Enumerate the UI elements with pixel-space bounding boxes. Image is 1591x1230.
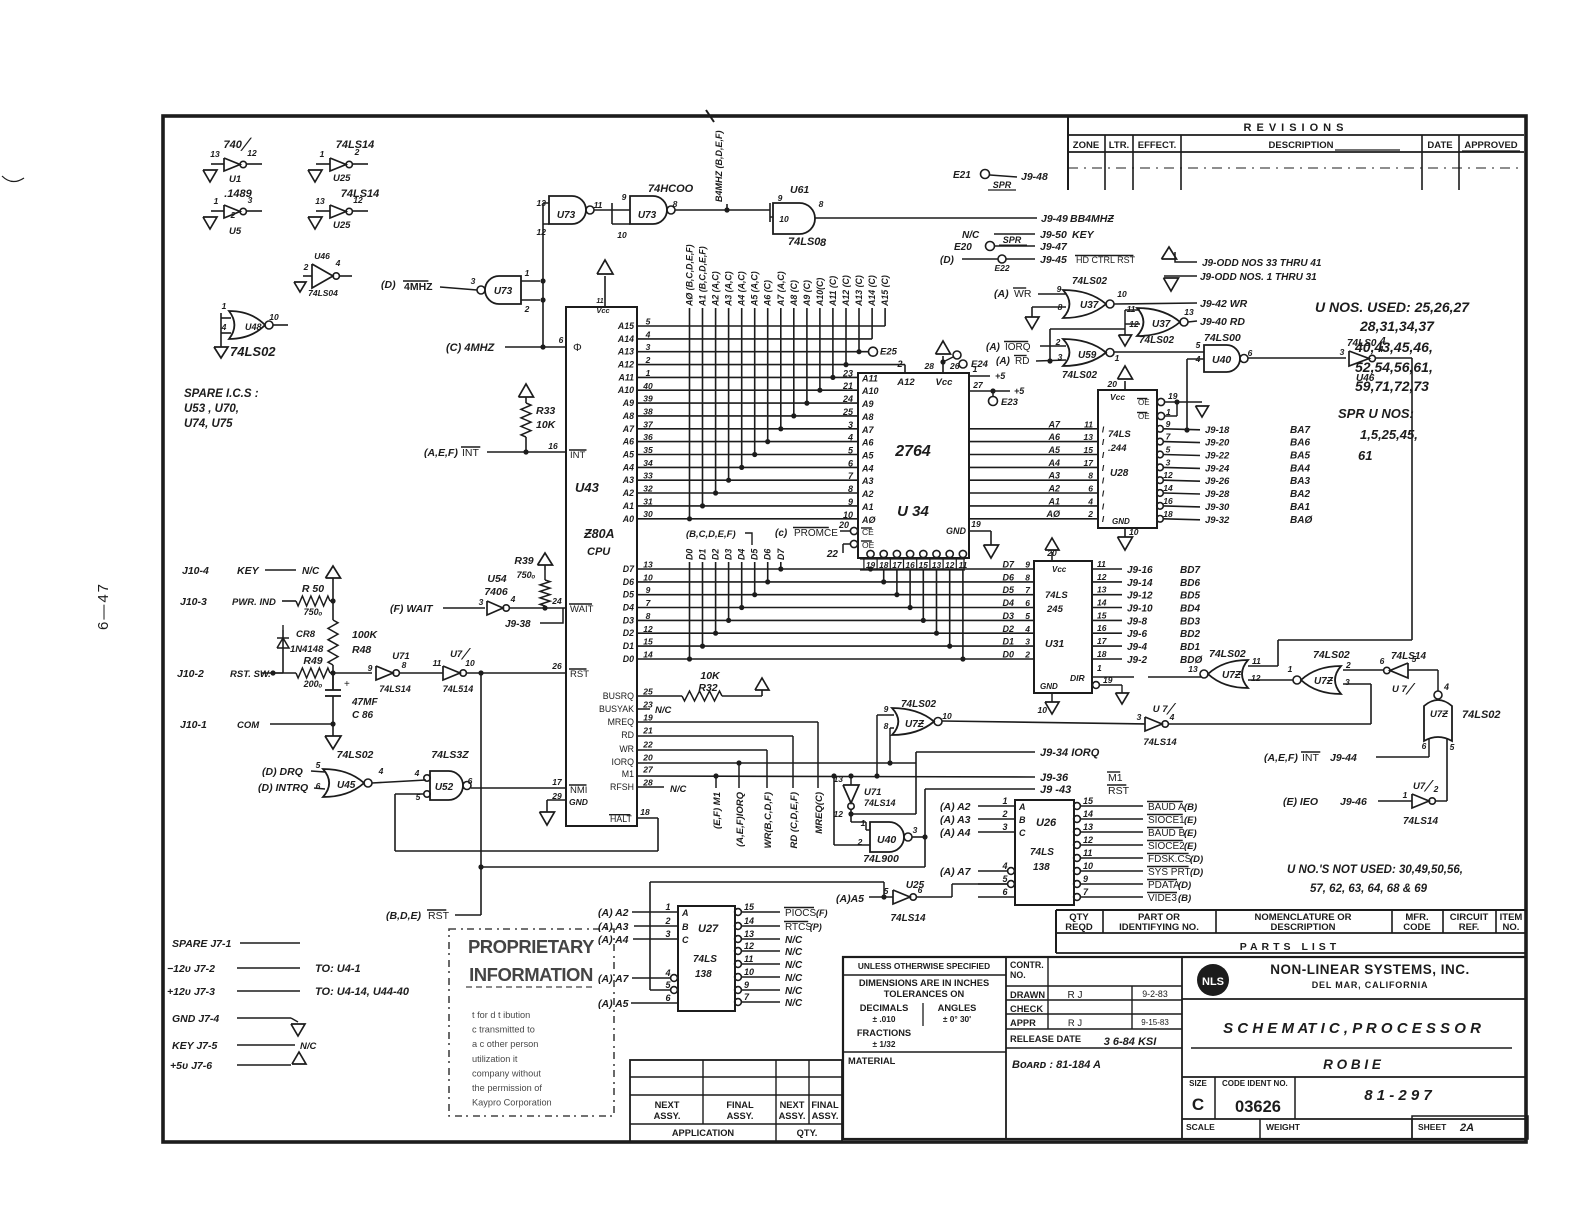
svg-text:SPR U NOS:: SPR U NOS: [1338,406,1414,421]
svg-text:GND J7-4: GND J7-4 [172,1013,219,1025]
svg-text:J9-48: J9-48 [1021,171,1048,183]
svg-text:WAIT: WAIT [570,604,594,615]
svg-text:3: 3 [646,342,651,352]
svg-text:D2: D2 [623,628,634,638]
svg-text:9: 9 [1166,419,1171,429]
svg-text:12: 12 [537,227,547,237]
resistor R50 750 [296,596,330,606]
U28 OE wiring [1165,401,1202,403]
ground U25b [308,217,322,229]
svg-text:NON-LINEAR SYSTEMS, INC.: NON-LINEAR SYSTEMS, INC. [1270,962,1470,977]
svg-text:A15 (C): A15 (C) [880,275,890,307]
svg-text:9: 9 [646,585,651,595]
svg-text:N/C: N/C [785,973,803,984]
svg-text:TO: U4-1: TO: U4-1 [315,963,361,975]
svg-text:12: 12 [643,624,653,634]
svg-text:U61: U61 [790,184,809,196]
wire U40b input 2 from M1 [834,844,870,846]
svg-text:(A,E,F): (A,E,F) [424,447,458,459]
svg-text:3: 3 [665,929,670,939]
svg-text:± 0° 30': ± 0° 30' [943,1014,971,1024]
title block [843,957,1526,1139]
svg-text:74LS: 74LS [1045,590,1068,601]
svg-text:4: 4 [1024,624,1030,634]
svg-text:NLS: NLS [1202,976,1224,988]
svg-text:A11: A11 [861,373,878,383]
svg-text:4: 4 [664,968,670,978]
svg-text:A7: A7 [622,424,635,434]
svg-text:WR: WR [1014,288,1032,300]
svg-text:74L900: 74L900 [863,853,899,865]
decoder U27 74LS138 [678,906,735,1011]
net label IORQ vertical [738,763,740,788]
svg-text:J9-40 RD: J9-40 RD [1200,316,1245,328]
svg-text:(E): (E) [1184,828,1197,839]
svg-text:APPR: APPR [1010,1018,1036,1028]
svg-text:J9-38: J9-38 [505,619,531,630]
svg-text:ZONE: ZONE [1073,140,1099,151]
svg-text:BAUD A: BAUD A [1148,802,1185,813]
svg-text:12: 12 [1097,572,1107,582]
svg-text:138: 138 [695,969,712,980]
svg-text:SYS PRT: SYS PRT [1148,867,1191,878]
bus line A3 [728,308,730,480]
buffer U28 74LS244 [1098,390,1157,528]
AND gate U61 (74LS08) [773,203,815,234]
svg-text:U45: U45 [337,780,356,791]
svg-text:9-15-83: 9-15-83 [1141,1018,1169,1027]
svg-text:2: 2 [896,359,902,369]
bus line A10(C) [819,308,821,390]
svg-text:25: 25 [642,687,653,697]
svg-text:U37: U37 [1152,319,1171,330]
svg-text:9: 9 [744,980,749,990]
svg-text:J9-22: J9-22 [1205,451,1230,462]
svg-text:A5: A5 [1047,445,1060,455]
U28 output BA2 [1157,490,1164,497]
svg-text:18: 18 [1163,509,1173,519]
svg-text:1: 1 [1115,353,1120,363]
svg-text:U59: U59 [1078,350,1097,361]
net label M1 vertical [715,776,717,788]
svg-text:10: 10 [1117,289,1127,299]
wire U72d out to U71c [942,721,1145,724]
node B4MHZ [724,207,729,212]
svg-text:4: 4 [414,768,420,778]
svg-text:13: 13 [1188,664,1198,674]
wire U72a input 11 from clock [1248,665,1278,667]
svg-text:A5: A5 [861,451,874,461]
svg-text:GND: GND [1040,682,1058,691]
svg-text:BB4MHƵ: BB4MHƵ [1070,213,1114,225]
svg-text:+5ᴜ J7-6: +5ᴜ J7-6 [170,1060,212,1072]
U34 output pin numbers [860,558,965,560]
svg-text:± .010: ± .010 [872,1014,895,1024]
svg-text:A3: A3 [861,476,874,486]
svg-text:(D) INTRQ: (D) INTRQ [258,782,308,794]
svg-text:A5 (A,C): A5 (A,C) [750,271,760,307]
ground CPU pin 29 [547,799,566,801]
svg-text:U25: U25 [333,220,351,231]
svg-text:U74, U75: U74, U75 [184,418,233,430]
svg-text:37: 37 [643,419,654,429]
svg-text:+: + [344,679,350,690]
svg-text:(C) 4MHZ: (C) 4MHZ [446,342,496,354]
svg-text:U7Ƶ: U7Ƶ [1314,676,1334,687]
svg-text:1: 1 [320,149,325,159]
U27 output RTCS pin 14 [735,923,742,930]
svg-text:10: 10 [643,572,653,582]
svg-text:47MF: 47MF [351,697,378,708]
svg-text:ASSY.: ASSY. [779,1111,806,1121]
svg-text:DATE: DATE [1427,140,1452,151]
U27 output N/C pin 11 [735,961,742,968]
wire A13 row [637,351,868,353]
U34 output bubbles [867,550,874,557]
svg-text:10: 10 [1083,861,1093,871]
svg-text:CODE IDENT NO.: CODE IDENT NO. [1222,1079,1288,1088]
svg-text:the permission of: the permission of [472,1083,542,1093]
svg-text:3: 3 [1058,352,1063,362]
svg-text:DEL MAR, CALIFORNIA: DEL MAR, CALIFORNIA [1312,980,1429,990]
svg-text:74LS02: 74LS02 [1139,335,1174,346]
svg-text:19: 19 [643,713,653,723]
svg-text:FRACTIONS: FRACTIONS [857,1028,911,1038]
wire M1 row [637,776,1035,777]
wire A1 row [637,505,858,507]
wire U27 pin 5 from A5 net [649,882,651,990]
svg-text:SPR: SPR [993,180,1012,190]
svg-text:10K: 10K [700,670,721,682]
svg-text:17: 17 [552,777,563,787]
svg-text:(A)A5: (A)A5 [836,893,864,905]
svg-text:74LS02: 74LS02 [1209,648,1246,660]
svg-text:D1: D1 [1002,637,1014,647]
svg-text:9: 9 [884,704,889,714]
U28 output BA1 [1157,503,1164,510]
svg-text:4: 4 [847,433,853,443]
U26 input pin 5 [1008,881,1015,888]
svg-text:1: 1 [525,268,530,278]
svg-text:36: 36 [643,432,653,442]
svg-text:2: 2 [354,147,360,157]
svg-text:N/C: N/C [785,960,803,971]
svg-text:10: 10 [843,510,853,520]
svg-text:J9-26: J9-26 [1205,476,1230,487]
svg-text:A9: A9 [622,398,634,408]
wire A14 row [637,338,872,340]
svg-text:A11 (C): A11 (C) [828,276,838,307]
svg-text:38: 38 [643,406,653,416]
svg-text:A9: A9 [861,399,874,409]
wire U45 to U52 [372,780,426,783]
svg-text:VIDE3: VIDE3 [1148,893,1177,904]
svg-text:10K: 10K [536,419,557,431]
wire U72c input 5 from U71f [1446,738,1448,801]
wire RD row [637,735,793,737]
U34 output wires to data bus [870,569,872,570]
svg-text:D4: D4 [1002,598,1014,608]
svg-text:4: 4 [1001,861,1007,871]
svg-text:4: 4 [1169,712,1175,722]
wire A7 row [637,428,858,430]
svg-text:1,5,25,45,: 1,5,25,45, [1360,427,1418,442]
svg-text:2764: 2764 [894,443,931,460]
svg-text:PWR. IND: PWR. IND [232,597,276,608]
svg-text:A: A [1018,802,1026,812]
svg-text:M1: M1 [1108,772,1123,784]
svg-text:A7: A7 [1047,419,1060,429]
svg-text:A7 (A,C): A7 (A,C) [776,271,786,307]
svg-text:D7: D7 [776,548,786,560]
svg-text:U73: U73 [494,286,513,297]
svg-text:A8 (C): A8 (C) [789,280,799,307]
wire A15 row [637,325,885,327]
svg-text:8: 8 [1088,471,1093,481]
svg-text:(B): (B) [1178,893,1191,904]
U31 output BD2 [1092,632,1122,634]
svg-text:NEXT: NEXT [780,1100,805,1110]
svg-text:AØ: AØ [861,515,876,525]
svg-text:12: 12 [247,148,257,158]
wire U40b output [912,836,925,838]
svg-text:E21: E21 [953,170,971,181]
svg-text:13: 13 [834,774,844,784]
svg-text:A6: A6 [861,438,874,448]
svg-text:2: 2 [664,916,670,926]
svg-text:CR8: CR8 [296,629,316,640]
svg-text:(E) IEO: (E) IEO [1283,796,1318,808]
svg-text:9: 9 [622,192,627,202]
svg-text:R48: R48 [352,644,371,656]
svg-text:40: 40 [642,381,653,391]
svg-text:D5: D5 [750,549,760,560]
wire U72b input 2 from U71e [1343,669,1383,671]
svg-text:FDSK.CS: FDSK.CS [1148,854,1192,865]
U26 output FDSK.CS [1074,855,1081,862]
svg-text:11: 11 [1252,656,1261,666]
svg-text:5: 5 [646,317,651,327]
svg-text:A12: A12 [896,377,915,388]
svg-text:15: 15 [744,902,755,912]
svg-text:J9-6: J9-6 [1127,629,1147,640]
svg-text:E22: E22 [994,263,1009,273]
svg-text:74LS00: 74LS00 [1204,332,1241,344]
svg-text:23: 23 [842,368,853,378]
svg-text:J10-2: J10-2 [177,668,204,680]
svg-text:J9-46: J9-46 [1340,796,1367,808]
svg-text:A1: A1 [622,501,634,511]
svg-text:31: 31 [643,496,653,506]
svg-text:A9 (C): A9 (C) [802,280,812,307]
wire A12 into 2764 [904,365,906,373]
bus line A9 [806,308,808,403]
U34 pin 1 Vpp +5 [969,375,990,377]
svg-text:12: 12 [353,195,363,205]
wire A4 row [637,466,858,468]
net label RD vertical [792,736,794,788]
wire U72d input 9 to M1 row [877,714,894,716]
svg-text:200ₒ: 200ₒ [303,679,323,689]
svg-text:17: 17 [1097,636,1108,646]
svg-text:N/C: N/C [785,986,803,997]
svg-text:74L514: 74L514 [443,684,474,694]
svg-text:N/C: N/C [785,998,803,1009]
svg-text:D1: D1 [698,549,708,560]
svg-text:A10(C): A10(C) [815,278,825,307]
wire U72a input 12 from U72b [1248,679,1293,681]
svg-text:R J: R J [1068,1018,1083,1029]
svg-text:SCALE: SCALE [1186,1122,1215,1132]
U27 output N/C pin 10 [735,974,742,981]
U26 output SYS PRT [1074,868,1081,875]
svg-text:D6: D6 [763,549,773,560]
svg-text:8: 8 [820,237,827,249]
svg-text:A10: A10 [617,385,634,395]
svg-text:a c other person: a c other person [472,1039,538,1049]
svg-text:U1: U1 [229,174,241,185]
svg-text:BA6: BA6 [1290,438,1310,449]
svg-text:t for d t ibution: t for d t ibution [472,1010,530,1020]
svg-text:APPROVED: APPROVED [1464,140,1517,151]
svg-text:J9-44: J9-44 [1330,752,1357,764]
svg-text:1: 1 [1097,663,1102,673]
svg-text:NEXT: NEXT [655,1100,680,1110]
svg-text:13: 13 [643,560,653,570]
svg-text:18: 18 [1097,649,1107,659]
svg-text:A1: A1 [1047,496,1060,506]
svg-text:DIMENSIONS ARE IN INCHES: DIMENSIONS ARE IN INCHES [859,978,989,988]
svg-text:1: 1 [222,301,227,311]
svg-text:N/C: N/C [962,230,980,241]
svg-text:SPR: SPR [1003,235,1022,245]
svg-text:26: 26 [949,361,960,371]
svg-text:+5: +5 [1014,386,1025,396]
U28 output BA4 [1157,464,1164,471]
svg-text:13: 13 [315,196,325,206]
svg-text:74LS02: 74LS02 [1062,370,1097,381]
svg-text:11: 11 [596,298,603,305]
svg-text:J10-3: J10-3 [180,596,207,608]
svg-text:15: 15 [1097,610,1107,620]
wire WR row [637,749,767,751]
svg-text:MREQ(C): MREQ(C) [814,792,825,834]
ground U1 [203,170,217,182]
svg-text:19: 19 [1103,675,1113,685]
wire U72d input 8 to IORQ row [890,727,894,729]
svg-text:U73: U73 [638,210,657,221]
svg-text:SHEET: SHEET [1418,1122,1447,1132]
svg-text:D1: D1 [623,641,634,651]
svg-text:3: 3 [1345,677,1350,687]
ground U48 [220,339,222,347]
svg-text:S C H E M AT I C , P R O C E: S C H E M AT I C , P R O C E S S O R [1223,1020,1481,1037]
svg-text:D3: D3 [623,615,634,625]
vcc J9-ODD NOS 33-41 [1162,247,1177,259]
svg-text:6: 6 [468,776,473,786]
svg-text:750ₒ: 750ₒ [517,570,536,580]
U28 output BA3 [1157,477,1164,484]
wire U37a to J9-42 WR [1114,303,1197,304]
svg-text:9: 9 [368,663,373,673]
wire U71c to U72b input 3 [1168,723,1371,725]
wire INT J9-44 to U72c [1428,738,1430,757]
NOR U37b 74LS02 [1137,308,1180,336]
svg-text:J9-45: J9-45 [1040,254,1067,266]
svg-text:A10: A10 [861,386,879,396]
svg-text:J9-50: J9-50 [1040,229,1067,241]
wire IORQ row [637,762,916,764]
svg-text:74LS14: 74LS14 [1403,816,1438,827]
decoder U26 74LS138 [1015,800,1074,905]
svg-text:± 1/32: ± 1/32 [872,1039,895,1049]
svg-text:J9-32: J9-32 [1205,515,1230,526]
svg-text:11: 11 [433,658,442,668]
svg-text:21: 21 [842,381,853,391]
svg-text:8: 8 [402,660,407,670]
svg-text:(D): (D) [1190,854,1203,865]
svg-text:A5: A5 [622,450,634,460]
wire A12 row [637,364,905,366]
svg-text:5: 5 [316,760,321,770]
NOR U72c 74LS02 (vertical) [1434,691,1442,699]
svg-text:(D): (D) [1190,867,1203,878]
svg-text:A4: A4 [622,462,634,472]
U31 output BDØ [1092,658,1122,660]
svg-text:N/C: N/C [655,705,672,716]
ground C86 [332,724,334,736]
svg-text:(c): (c) [775,528,788,539]
svg-text:BD3: BD3 [1180,616,1200,627]
svg-text:(D): (D) [1178,880,1191,891]
svg-text:A3 (A,C): A3 (A,C) [724,271,734,307]
bus line A13 [858,308,860,352]
svg-text:24: 24 [842,394,853,404]
svg-text:DESCRIPTION: DESCRIPTION [1269,140,1334,151]
svg-text:(D): (D) [381,279,396,291]
U31 output BD6 [1092,581,1122,583]
svg-text:J9-12: J9-12 [1127,591,1153,602]
label J9-43 RST [925,788,1035,790]
svg-text:3: 3 [1002,822,1007,832]
NAND U73a (74HC00) [549,196,586,224]
wire MREQ row [637,721,818,723]
svg-text:3: 3 [471,276,476,286]
svg-text:1: 1 [1002,796,1007,806]
EPROM U34 2764 [858,373,969,558]
U28 output BAØ [1157,516,1164,523]
wire AØ to U28 [969,518,1098,520]
svg-text:J9-24: J9-24 [1205,463,1230,474]
bus line A7 [780,308,782,429]
svg-text:A6: A6 [1047,432,1060,442]
svg-text:4: 4 [335,258,341,268]
svg-text:BD4: BD4 [1180,604,1200,615]
svg-text:74LS02: 74LS02 [1462,709,1501,721]
svg-text:(A) A2: (A) A2 [940,801,971,813]
svg-text:N/C: N/C [670,784,687,795]
svg-text:NO.: NO. [1503,922,1520,933]
svg-text:2: 2 [1001,809,1007,819]
svg-text:(A) A3: (A) A3 [940,814,971,826]
wire U71e input from U72c [1408,669,1438,671]
svg-text:74LS14: 74LS14 [379,684,411,694]
svg-text:100K: 100K [352,629,379,641]
svg-text:16: 16 [1163,496,1173,506]
svg-text:6—47: 6—47 [95,582,112,630]
svg-text:(D): (D) [940,255,955,266]
svg-text:3: 3 [248,195,253,205]
